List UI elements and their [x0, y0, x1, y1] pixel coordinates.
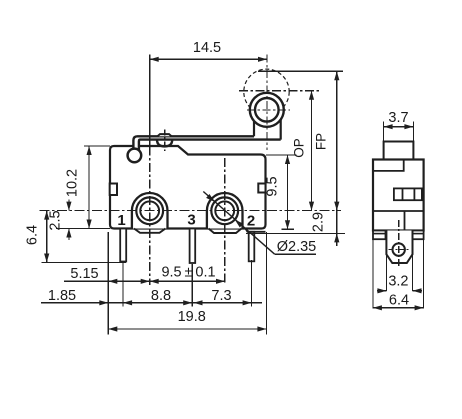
svg-text:3.2: 3.2	[388, 274, 408, 290]
rivet2 centerline dash-dot	[224, 158, 226, 285]
centerline horizontal roller y=110	[247, 109, 290, 111]
OP top reference line y=90.8	[239, 90, 319, 92]
svg-text:3: 3	[187, 212, 195, 229]
side right foot	[412, 231, 424, 240]
dimension 6.4 left	[46, 211, 48, 263]
left side notch	[110, 184, 117, 196]
dimension 2.5 (outside arrows)	[68, 200, 70, 211]
side hole centerline horizontal	[389, 249, 410, 251]
bottom extension pin2 x=251.6	[251, 260, 253, 307]
right: 9.5 top reference y=155	[266, 154, 297, 156]
lever roller bracket	[254, 115, 281, 140]
roller inner circle	[255, 98, 279, 122]
bottom extension pin1 x=123.1	[122, 262, 124, 307]
svg-text:9.5: 9.5	[265, 176, 281, 196]
roller outer circle	[250, 93, 284, 127]
svg-text:OP: OP	[291, 138, 306, 158]
bottom right step	[246, 229, 266, 232]
rivet 2 middle ring	[211, 197, 238, 224]
side terminal tab	[386, 231, 412, 264]
bottom extension x=266.4	[265, 232, 267, 335]
rivet1 centerline dash-dot	[149, 147, 151, 286]
svg-text:10.2: 10.2	[65, 169, 81, 197]
dimension FP	[336, 71, 338, 210]
dimension 2.9 (outside arrows, below)	[336, 211, 338, 246]
lever dome below strip	[157, 140, 172, 147]
rivet 1 hole	[140, 201, 159, 220]
svg-text:9.5 ± 0.1: 9.5 ± 0.1	[161, 265, 215, 281]
svg-text:14.5: 14.5	[193, 40, 221, 56]
svg-text:8.8: 8.8	[151, 288, 171, 304]
terminal pin 2	[249, 232, 255, 261]
dimension OP	[311, 91, 313, 211]
svg-text:3.7: 3.7	[388, 110, 408, 126]
svg-text:2.5: 2.5	[47, 210, 63, 230]
rivet boss 1	[132, 193, 168, 229]
dimension 9.5 right	[287, 155, 289, 229]
side body	[373, 160, 424, 231]
terminal pin 1	[120, 229, 126, 262]
svg-text:5.15: 5.15	[70, 266, 98, 282]
side internal seam	[373, 211, 424, 231]
bottom extension x=108.3	[107, 232, 109, 335]
svg-text:2.9: 2.9	[311, 212, 327, 232]
svg-text:1.85: 1.85	[48, 288, 76, 304]
left: body top extension	[84, 145, 110, 147]
svg-text:19.8: 19.8	[178, 309, 206, 325]
dimension 3.2 (outside arrows)	[377, 290, 386, 292]
rivet 1 middle ring	[136, 197, 163, 224]
3.2 extension lines	[385, 254, 387, 291]
roller free-position dashed circle	[244, 69, 289, 114]
dimension 3.7	[384, 126, 414, 128]
leader arrow lower	[235, 220, 244, 228]
switch body outline front view	[110, 146, 266, 229]
bottom bump under rivet 2	[209, 229, 242, 234]
side left foot	[373, 231, 386, 240]
FP top reference line y=71.3	[258, 70, 343, 72]
svg-text:1: 1	[117, 212, 125, 229]
rivet 2 hole	[215, 201, 234, 220]
hole centerline y=210.6 long	[40, 210, 342, 212]
6.4 extension lines	[372, 232, 374, 309]
side terminal hole	[393, 243, 405, 255]
bottom bump under rivet 1	[134, 229, 166, 233]
right: 9.5 bottom reference tick	[282, 228, 295, 230]
svg-text:FP: FP	[313, 133, 328, 150]
dimension line 1.85 / 8.8 / 7.3	[41, 302, 262, 304]
side plunger	[384, 142, 414, 160]
hinge centerline x=164.7	[164, 130, 166, 152]
leader underline	[275, 253, 316, 255]
side centerline vertical	[398, 220, 400, 268]
3.7 extension lines	[383, 121, 385, 141]
lever arm strip with left hook	[133, 136, 280, 150]
leader arrow upper	[206, 194, 215, 202]
pivot circle top-left	[128, 149, 142, 163]
lever dimple above strip	[158, 134, 172, 136]
svg-text:7.3: 7.3	[211, 288, 231, 304]
lever stem fill	[133, 136, 139, 150]
left: body bottom extension	[56, 228, 110, 230]
2.9 bottom reference y=233.4	[246, 232, 345, 234]
side internal top box	[373, 160, 404, 171]
svg-text:Ø2.35: Ø2.35	[277, 239, 317, 255]
svg-text:6.4: 6.4	[25, 225, 41, 245]
right side notch	[258, 184, 265, 193]
dimension line 19.8	[108, 328, 266, 330]
dimension 10.2	[88, 146, 90, 229]
svg-text:6.4: 6.4	[389, 293, 409, 309]
bottom extension pin3 x=192.2	[191, 264, 193, 307]
dimension line 5.15 / 9.5±0.1	[64, 280, 225, 282]
rivet1 centerline solid top segment (14.5 extension)	[149, 55, 151, 147]
dimension 14.5 top	[150, 58, 267, 60]
dimension 6.4 side	[373, 307, 424, 309]
side internal mid strip	[394, 188, 422, 200]
centerline vertical roller x=267	[266, 55, 268, 151]
rivet boss 2	[207, 193, 243, 228]
terminal pin 3 (middle)	[190, 229, 196, 264]
diameter leader line	[203, 192, 274, 255]
svg-text:2: 2	[247, 213, 255, 230]
left: terminal tip extension y=262.5	[41, 262, 126, 264]
